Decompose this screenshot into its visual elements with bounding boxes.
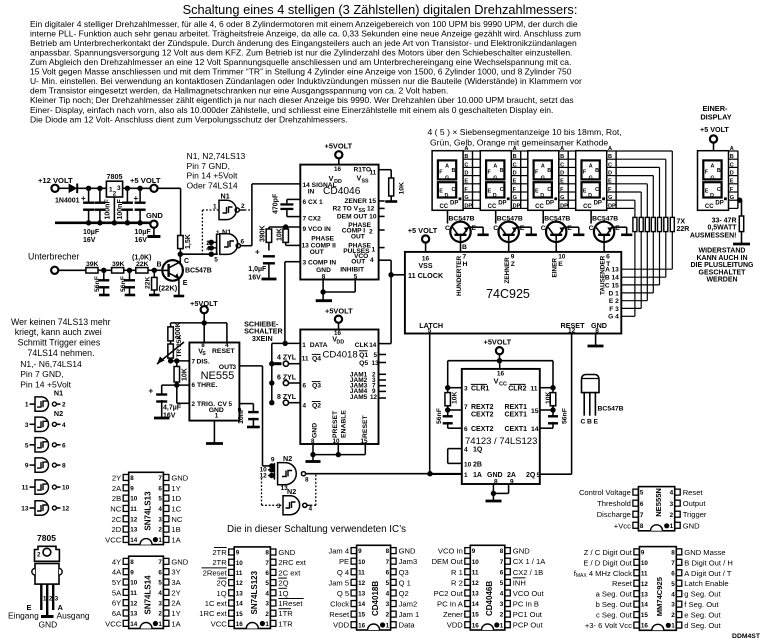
74C925 internal labels — [408, 254, 619, 335]
svg-text:Jam2: Jam2 — [399, 600, 418, 609]
svg-text:N1, N2,74LS13: N1, N2,74LS13 — [187, 151, 246, 161]
svg-text:2: 2 — [158, 611, 162, 618]
svg-text:5: 5 — [374, 352, 378, 359]
svg-text:8: 8 — [386, 548, 390, 555]
segment bus inter-display wires — [473, 151, 577, 208]
svg-text:Reset: Reset — [683, 488, 704, 497]
svg-text:10: 10 — [130, 580, 138, 587]
svg-text:C: C — [500, 187, 504, 193]
svg-text:4: 4 — [464, 447, 468, 454]
svg-text:PC2 Out: PC2 Out — [434, 589, 464, 598]
svg-text:C: C — [730, 162, 734, 168]
svg-text:REXT2: REXT2 — [471, 404, 494, 411]
svg-text:100nF: 100nF — [117, 199, 124, 220]
svg-text:C: C — [541, 225, 546, 232]
CD4018 internal labels — [302, 330, 379, 445]
svg-text:Ein digitaler 4 stelliger Dreh: Ein digitaler 4 stelliger Drehzahlmesser… — [30, 19, 578, 29]
svg-text:(22K): (22K) — [159, 284, 178, 293]
svg-text:INHIBIT: INHIBIT — [340, 267, 364, 274]
display DIS3 7-segment — [528, 151, 559, 211]
svg-text:Output: Output — [683, 499, 707, 508]
transistor Q4 BC547B EINER driver — [541, 210, 585, 252]
svg-text:13: 13 — [372, 360, 380, 367]
svg-text:1Q: 1Q — [278, 589, 288, 598]
svg-text:Q5: Q5 — [359, 360, 368, 367]
resistor 10K loop filter — [277, 228, 301, 245]
svg-text:(1,0K): (1,0K) — [132, 254, 151, 261]
switch 8ZYL — [269, 394, 300, 405]
svg-text:B: B — [452, 168, 456, 174]
svg-text:A: A — [711, 163, 715, 169]
svg-text:Kleiner Tip noch; Der Drehzahl: Kleiner Tip noch; Der Drehzahlmesser zäh… — [30, 95, 574, 105]
svg-text:14: 14 — [641, 602, 649, 609]
svg-text:4: 4 — [671, 591, 675, 598]
svg-text:2: 2 — [192, 401, 196, 408]
svg-text:12: 12 — [130, 600, 138, 607]
svg-text:15: 15 — [358, 612, 366, 619]
svg-text:Unterbrecher: Unterbrecher — [28, 252, 79, 262]
svg-text:VCO Out: VCO Out — [513, 589, 545, 598]
svg-text:7805: 7805 — [107, 172, 123, 181]
NE555 ground pin1 — [206, 421, 223, 444]
svg-text:13: 13 — [358, 591, 366, 598]
svg-text:1,0µF: 1,0µF — [248, 266, 267, 273]
svg-text:anpassbar. Spannungsversorgung: anpassbar. Spannungsversorgung 12 Volt a… — [30, 47, 572, 57]
svg-text:N1,- N6,74LS14: N1,- N6,74LS14 — [20, 359, 82, 369]
svg-text:1Reset: 1Reset — [278, 599, 303, 608]
svg-text:N2: N2 — [54, 409, 63, 418]
svg-text:6: 6 — [192, 382, 196, 389]
svg-text:11: 11 — [358, 569, 365, 576]
svg-text:GND: GND — [683, 521, 700, 530]
wire LATCH — [429, 334, 431, 474]
svg-text:CC: CC — [583, 204, 592, 210]
capacitor 56nF 74123 right — [540, 408, 569, 428]
svg-text:74C925: 74C925 — [486, 287, 530, 301]
wire TRIG — [177, 385, 190, 403]
svg-text:4: 4 — [386, 591, 390, 598]
svg-text:6: 6 — [640, 501, 644, 508]
IC package MM74C925 pinout — [574, 547, 733, 631]
svg-text:E: E — [535, 189, 539, 195]
svg-text:IN: IN — [308, 189, 315, 196]
svg-text:kriegt, kann auch zwei: kriegt, kann auch zwei — [15, 327, 102, 337]
svg-text:B: B — [462, 244, 467, 251]
svg-text:D: D — [445, 193, 449, 199]
svg-text:A: A — [560, 146, 564, 152]
svg-text:GND: GND — [278, 548, 295, 557]
NE555 top wires — [171, 320, 227, 342]
svg-text:R 2: R 2 — [451, 578, 463, 587]
svg-text:CD4018: CD4018 — [323, 350, 358, 361]
svg-text:10: 10 — [641, 560, 649, 567]
svg-text:10K: 10K — [182, 368, 189, 381]
svg-text:CC: CC — [439, 204, 448, 210]
svg-text:10K: 10K — [545, 391, 552, 404]
svg-text:E: E — [567, 225, 572, 232]
wire N1 output to CD4046 signal in — [252, 184, 300, 246]
svg-text:8: 8 — [595, 328, 599, 335]
svg-text:RESET: RESET — [362, 414, 369, 438]
svg-text:CD4046B: CD4046B — [485, 581, 494, 616]
svg-text:F: F — [730, 187, 734, 193]
svg-text:EINER: EINER — [552, 258, 559, 278]
svg-text:2B: 2B — [473, 461, 482, 468]
svg-text:5: 5 — [158, 496, 162, 503]
svg-text:NC: NC — [171, 515, 182, 524]
svg-text:470pF: 470pF — [273, 193, 280, 214]
svg-text:6: 6 — [158, 485, 162, 492]
svg-text:CX2 / 1B: CX2 / 1B — [513, 568, 543, 577]
svg-text:5: 5 — [386, 580, 390, 587]
svg-text:1A: 1A — [473, 472, 482, 479]
svg-text:SN74LS123: SN74LS123 — [250, 570, 259, 614]
svg-text:DP: DP — [450, 201, 458, 207]
svg-text:3: 3 — [464, 385, 468, 392]
svg-text:2: 2 — [500, 612, 504, 619]
svg-text:3: 3 — [671, 602, 675, 609]
svg-text:8: 8 — [640, 523, 644, 530]
svg-text:8: 8 — [130, 475, 134, 482]
svg-text:15: 15 — [641, 612, 649, 619]
svg-text:1: 1 — [372, 247, 376, 254]
IC U4 74C925 box — [405, 252, 621, 334]
svg-text:D: D — [730, 171, 734, 177]
svg-text:100nF: 100nF — [104, 199, 111, 220]
svg-text:7: 7 — [640, 512, 644, 519]
svg-text:14: 14 — [130, 621, 138, 628]
svg-text:6: 6 — [303, 383, 307, 390]
svg-text:10: 10 — [236, 560, 244, 567]
svg-text:14: 14 — [236, 601, 244, 608]
svg-text:PC In A: PC In A — [437, 600, 464, 609]
svg-text:2Q: 2Q — [526, 472, 536, 479]
svg-text:F 3: F 3 — [609, 306, 619, 313]
svg-text:56nF: 56nF — [120, 276, 127, 292]
+5 Volt terminal — [130, 176, 161, 192]
svg-text:Q3: Q3 — [399, 568, 409, 577]
IC U2 NE555 box — [189, 343, 239, 421]
svg-text:Pin 7 GND,: Pin 7 GND, — [20, 369, 63, 379]
svg-text:GND: GND — [312, 423, 319, 438]
svg-text:G: G — [730, 195, 734, 201]
label 33-47R — [690, 218, 737, 240]
svg-text:C: C — [452, 187, 456, 193]
wire VCO IN — [269, 224, 300, 229]
svg-text:10nF: 10nF — [238, 407, 245, 424]
svg-text:E: E — [488, 189, 492, 195]
svg-text:Reset: Reset — [329, 610, 350, 619]
Unterbrecher terminal — [51, 267, 58, 274]
svg-text:2RC ext: 2RC ext — [278, 558, 306, 567]
svg-text:9: 9 — [25, 463, 29, 470]
svg-text:ENABLE: ENABLE — [341, 410, 348, 438]
svg-text:CLK: CLK — [355, 342, 369, 349]
svg-text:ZEHNER: ZEHNER — [504, 257, 511, 284]
svg-text:SS: SS — [362, 179, 370, 185]
svg-text:Die in dieser Schaltung verwen: Die in dieser Schaltung verwendeten IC’s — [227, 524, 406, 535]
svg-text:PCP Out: PCP Out — [513, 621, 544, 630]
svg-text:Schaltung eines 4 stelligen (3: Schaltung eines 4 stelligen (3 Zählstell… — [183, 2, 578, 17]
svg-text:a Seg. Out: a Seg. Out — [596, 590, 633, 599]
svg-text:9 VCO IN: 9 VCO IN — [303, 226, 331, 233]
svg-text:8: 8 — [62, 463, 66, 470]
capacitor 10uF input electrolytic — [81, 188, 100, 244]
svg-text:+5VOLT: +5VOLT — [325, 306, 353, 315]
svg-text:G: G — [560, 195, 564, 201]
display DIS5 einer 7-segment — [698, 151, 729, 211]
svg-text:6: 6 — [265, 570, 269, 577]
wire 1A input — [431, 473, 462, 475]
svg-text:DP: DP — [513, 203, 521, 209]
svg-text:1: 1 — [265, 621, 269, 628]
svg-text:f Seg. Out: f Seg. Out — [684, 600, 719, 609]
signature DDM4ST — [732, 633, 760, 640]
svg-text:C 15: C 15 — [605, 282, 619, 289]
note N1 N2 74LS13 — [187, 151, 246, 190]
CD4018 right pin stubs — [379, 355, 387, 399]
svg-text:+5VOLT: +5VOLT — [325, 142, 353, 151]
svg-text:DIS.: DIS. — [197, 359, 210, 366]
svg-text:G: G — [710, 175, 714, 181]
svg-text:GND: GND — [513, 547, 530, 556]
svg-text:5: 5 — [428, 328, 432, 335]
svg-text:NE555N: NE555N — [654, 488, 663, 517]
svg-text:1: 1 — [25, 402, 29, 409]
CD4046 pin stub R1 — [379, 169, 392, 171]
svg-text:12: 12 — [236, 580, 244, 587]
svg-text:BC547B: BC547B — [598, 406, 624, 413]
svg-text:GND: GND — [591, 321, 607, 330]
description paragraph — [30, 19, 582, 125]
resistor 39K second — [112, 261, 125, 273]
display DIS4 segment connector strip — [607, 146, 616, 210]
svg-text:N1: N1 — [221, 192, 230, 201]
svg-text:7: 7 — [671, 560, 675, 567]
svg-text:6: 6 — [500, 569, 504, 576]
svg-text:A 13: A 13 — [605, 267, 619, 274]
svg-text:16V: 16V — [163, 413, 176, 420]
svg-text:+: + — [134, 194, 139, 203]
svg-text:CEXT2: CEXT2 — [471, 426, 494, 433]
svg-text:15: 15 — [531, 408, 539, 415]
svg-text:CC: CC — [488, 204, 497, 210]
svg-text:U- Min. einstellen. Bei verwen: U- Min. einstellen. Bei verwendung an ko… — [30, 76, 582, 86]
svg-text:Pin 7 GND,: Pin 7 GND, — [187, 161, 230, 171]
svg-text:Betrieb am Unterbrecherkontakt: Betrieb am Unterbrecherkontakt der Zünds… — [30, 38, 577, 48]
svg-text:3: 3 — [158, 516, 162, 523]
svg-text:2Y: 2Y — [112, 473, 121, 482]
svg-text:12: 12 — [568, 328, 576, 335]
svg-text:1: 1 — [500, 622, 504, 629]
svg-text:TR 25K: TR 25K — [176, 335, 183, 358]
svg-text:R 1: R 1 — [451, 568, 463, 577]
transistor Q5 BC547B TAUSENDER driver — [589, 210, 633, 252]
svg-text:OUT: OUT — [351, 233, 365, 240]
svg-text:CC: CC — [499, 382, 507, 388]
svg-text:DP: DP — [715, 201, 723, 207]
svg-text:D: D — [464, 171, 468, 177]
+5V terminal 74123 — [484, 338, 512, 361]
segment bus fan to resistors — [616, 151, 672, 217]
svg-text:8: 8 — [130, 559, 134, 566]
svg-text:DD: DD — [337, 340, 345, 346]
svg-text:9: 9 — [511, 254, 515, 261]
CD4018 ground wires — [306, 444, 366, 462]
svg-text:7X: 7X — [677, 219, 686, 226]
resistor 10K at pin11 — [385, 170, 405, 202]
svg-text:G: G — [589, 175, 593, 181]
svg-text:GESCHALTET: GESCHALTET — [699, 269, 747, 276]
svg-text:RESET: RESET — [212, 348, 236, 355]
svg-text:D: D — [588, 193, 592, 199]
svg-text:6: 6 — [464, 426, 468, 433]
svg-text:D: D — [540, 193, 544, 199]
svg-text:VCC: VCC — [211, 619, 228, 628]
svg-text:1: 1 — [464, 472, 468, 479]
svg-text:16V: 16V — [248, 274, 261, 281]
svg-text:4: 4 — [158, 590, 162, 597]
svg-text:C: C — [547, 187, 551, 193]
svg-text:NC: NC — [110, 504, 121, 513]
svg-text:12: 12 — [358, 580, 366, 587]
transistor Q1 emitter wire — [174, 278, 188, 296]
svg-text:B 14: B 14 — [605, 275, 619, 282]
svg-text:D: D — [608, 171, 612, 177]
title text — [183, 2, 578, 18]
svg-text:KANN AUCH IN: KANN AUCH IN — [696, 255, 747, 262]
svg-text:Q2: Q2 — [312, 403, 321, 410]
svg-text:Oder 74LS14: Oder 74LS14 — [187, 180, 238, 190]
svg-text:CLR2: CLR2 — [508, 385, 526, 392]
svg-text:4: 4 — [303, 403, 307, 410]
svg-text:2Q: 2Q — [278, 579, 288, 588]
svg-text:13: 13 — [130, 527, 138, 534]
svg-text:DEM Out: DEM Out — [432, 557, 464, 566]
svg-text:4,7µF: 4,7µF — [163, 405, 182, 412]
svg-text:Reset: Reset — [612, 579, 633, 588]
svg-text:11: 11 — [530, 385, 537, 392]
svg-text:G 4: G 4 — [608, 314, 619, 321]
svg-text:CX 1 / 1A: CX 1 / 1A — [513, 557, 546, 566]
svg-text:GND: GND — [399, 547, 416, 556]
svg-text:C: C — [560, 162, 564, 168]
svg-text:g Seg. Out: g Seg. Out — [684, 590, 721, 599]
svg-text:12: 12 — [260, 473, 268, 480]
svg-text:1TR: 1TR — [278, 619, 293, 628]
svg-text:C: C — [581, 419, 586, 426]
svg-text:7: 7 — [158, 475, 162, 482]
+5V terminal 74C925 — [408, 226, 438, 252]
svg-text:14: 14 — [130, 537, 138, 544]
svg-text:5: 5 — [500, 580, 504, 587]
svg-text:C: C — [184, 258, 189, 265]
svg-text:S: S — [202, 351, 206, 357]
svg-text:56nF: 56nF — [562, 408, 569, 424]
capacitor 10uF output electrolytic — [134, 188, 152, 244]
svg-text:4: 4 — [265, 590, 269, 597]
wire 1Q to 2B loop — [448, 449, 462, 464]
svg-text:G: G — [541, 175, 545, 181]
display note text — [428, 127, 622, 148]
svg-text:DP: DP — [498, 201, 506, 207]
note 74LS14 alternative — [11, 317, 111, 358]
svg-text:1: 1 — [671, 623, 675, 630]
display DIS1 segment connector strip — [463, 146, 472, 210]
svg-text:2: 2 — [158, 527, 162, 534]
svg-text:Grün, Gelb, Orange mit gemeins: Grün, Gelb, Orange mit gemeinsamer Katho… — [430, 138, 608, 148]
transistor Q3 BC547B ZEHNER driver — [493, 210, 537, 252]
wire — [98, 268, 112, 273]
svg-text:10K: 10K — [277, 228, 284, 241]
svg-text:E: E — [464, 179, 468, 185]
switch 6ZYL — [269, 374, 300, 385]
svg-text:c Seg. Out: c Seg. Out — [596, 611, 633, 620]
svg-text:DISPLAY: DISPLAY — [700, 113, 731, 122]
svg-text:VSS: VSS — [418, 263, 432, 270]
svg-text:1C: 1C — [171, 504, 181, 513]
svg-text:A: A — [589, 163, 593, 169]
NE555 internal labels — [192, 342, 237, 419]
resistor 100K — [168, 322, 182, 341]
svg-text:22R: 22R — [677, 226, 690, 233]
svg-text:11 CLOCK: 11 CLOCK — [408, 271, 444, 280]
svg-text:Threshold: Threshold — [597, 499, 631, 508]
svg-text:F: F — [608, 187, 612, 193]
IC package NE555N pinout — [579, 487, 707, 531]
transistor BC547B package TO-92 — [581, 375, 624, 426]
svg-text:+5 VOLT: +5 VOLT — [408, 226, 438, 235]
svg-text:5: 5 — [214, 256, 218, 263]
svg-text:THRE.: THRE. — [197, 382, 218, 389]
svg-text:A: A — [464, 146, 468, 152]
CD4046 internal labels — [302, 166, 377, 280]
capacitor 100nF input — [94, 188, 111, 223]
svg-text:10: 10 — [358, 559, 366, 566]
svg-text:Jam 5: Jam 5 — [328, 578, 349, 587]
svg-text:3Y: 3Y — [171, 568, 180, 577]
IC package SN74LS13 pinout — [105, 472, 189, 544]
svg-text:1,5K: 1,5K — [185, 234, 192, 249]
wire THRE — [162, 382, 190, 387]
svg-text:7: 7 — [265, 560, 269, 567]
svg-text:10: 10 — [62, 485, 70, 492]
svg-text:2: 2 — [241, 203, 245, 210]
svg-text:C: C — [445, 225, 450, 232]
svg-text:C: C — [464, 162, 468, 168]
svg-text:Pin 14 +5Volt: Pin 14 +5Volt — [187, 171, 238, 181]
svg-text:Z: Z — [511, 261, 515, 268]
svg-text:B: B — [500, 168, 504, 174]
svg-text:G: G — [464, 195, 468, 201]
wire DIS — [168, 358, 189, 363]
resistor 10K 74123 right — [540, 385, 556, 413]
svg-text:16: 16 — [641, 623, 649, 630]
wire collector to gate N1 — [180, 253, 218, 255]
svg-text:5: 5 — [25, 442, 29, 449]
svg-text:C: C — [595, 187, 599, 193]
svg-text:3: 3 — [386, 601, 390, 608]
regulator 7805 box — [106, 172, 122, 197]
svg-text:CC: CC — [705, 204, 714, 210]
svg-text:A: A — [541, 163, 545, 169]
+5V terminal CD4046 — [325, 142, 353, 165]
trimmer TR 25K — [157, 335, 184, 364]
svg-text:9: 9 — [236, 550, 240, 557]
svg-text:3: 3 — [117, 185, 121, 192]
note N1-N6 74LS14 — [20, 359, 82, 390]
einer display label — [700, 104, 731, 122]
